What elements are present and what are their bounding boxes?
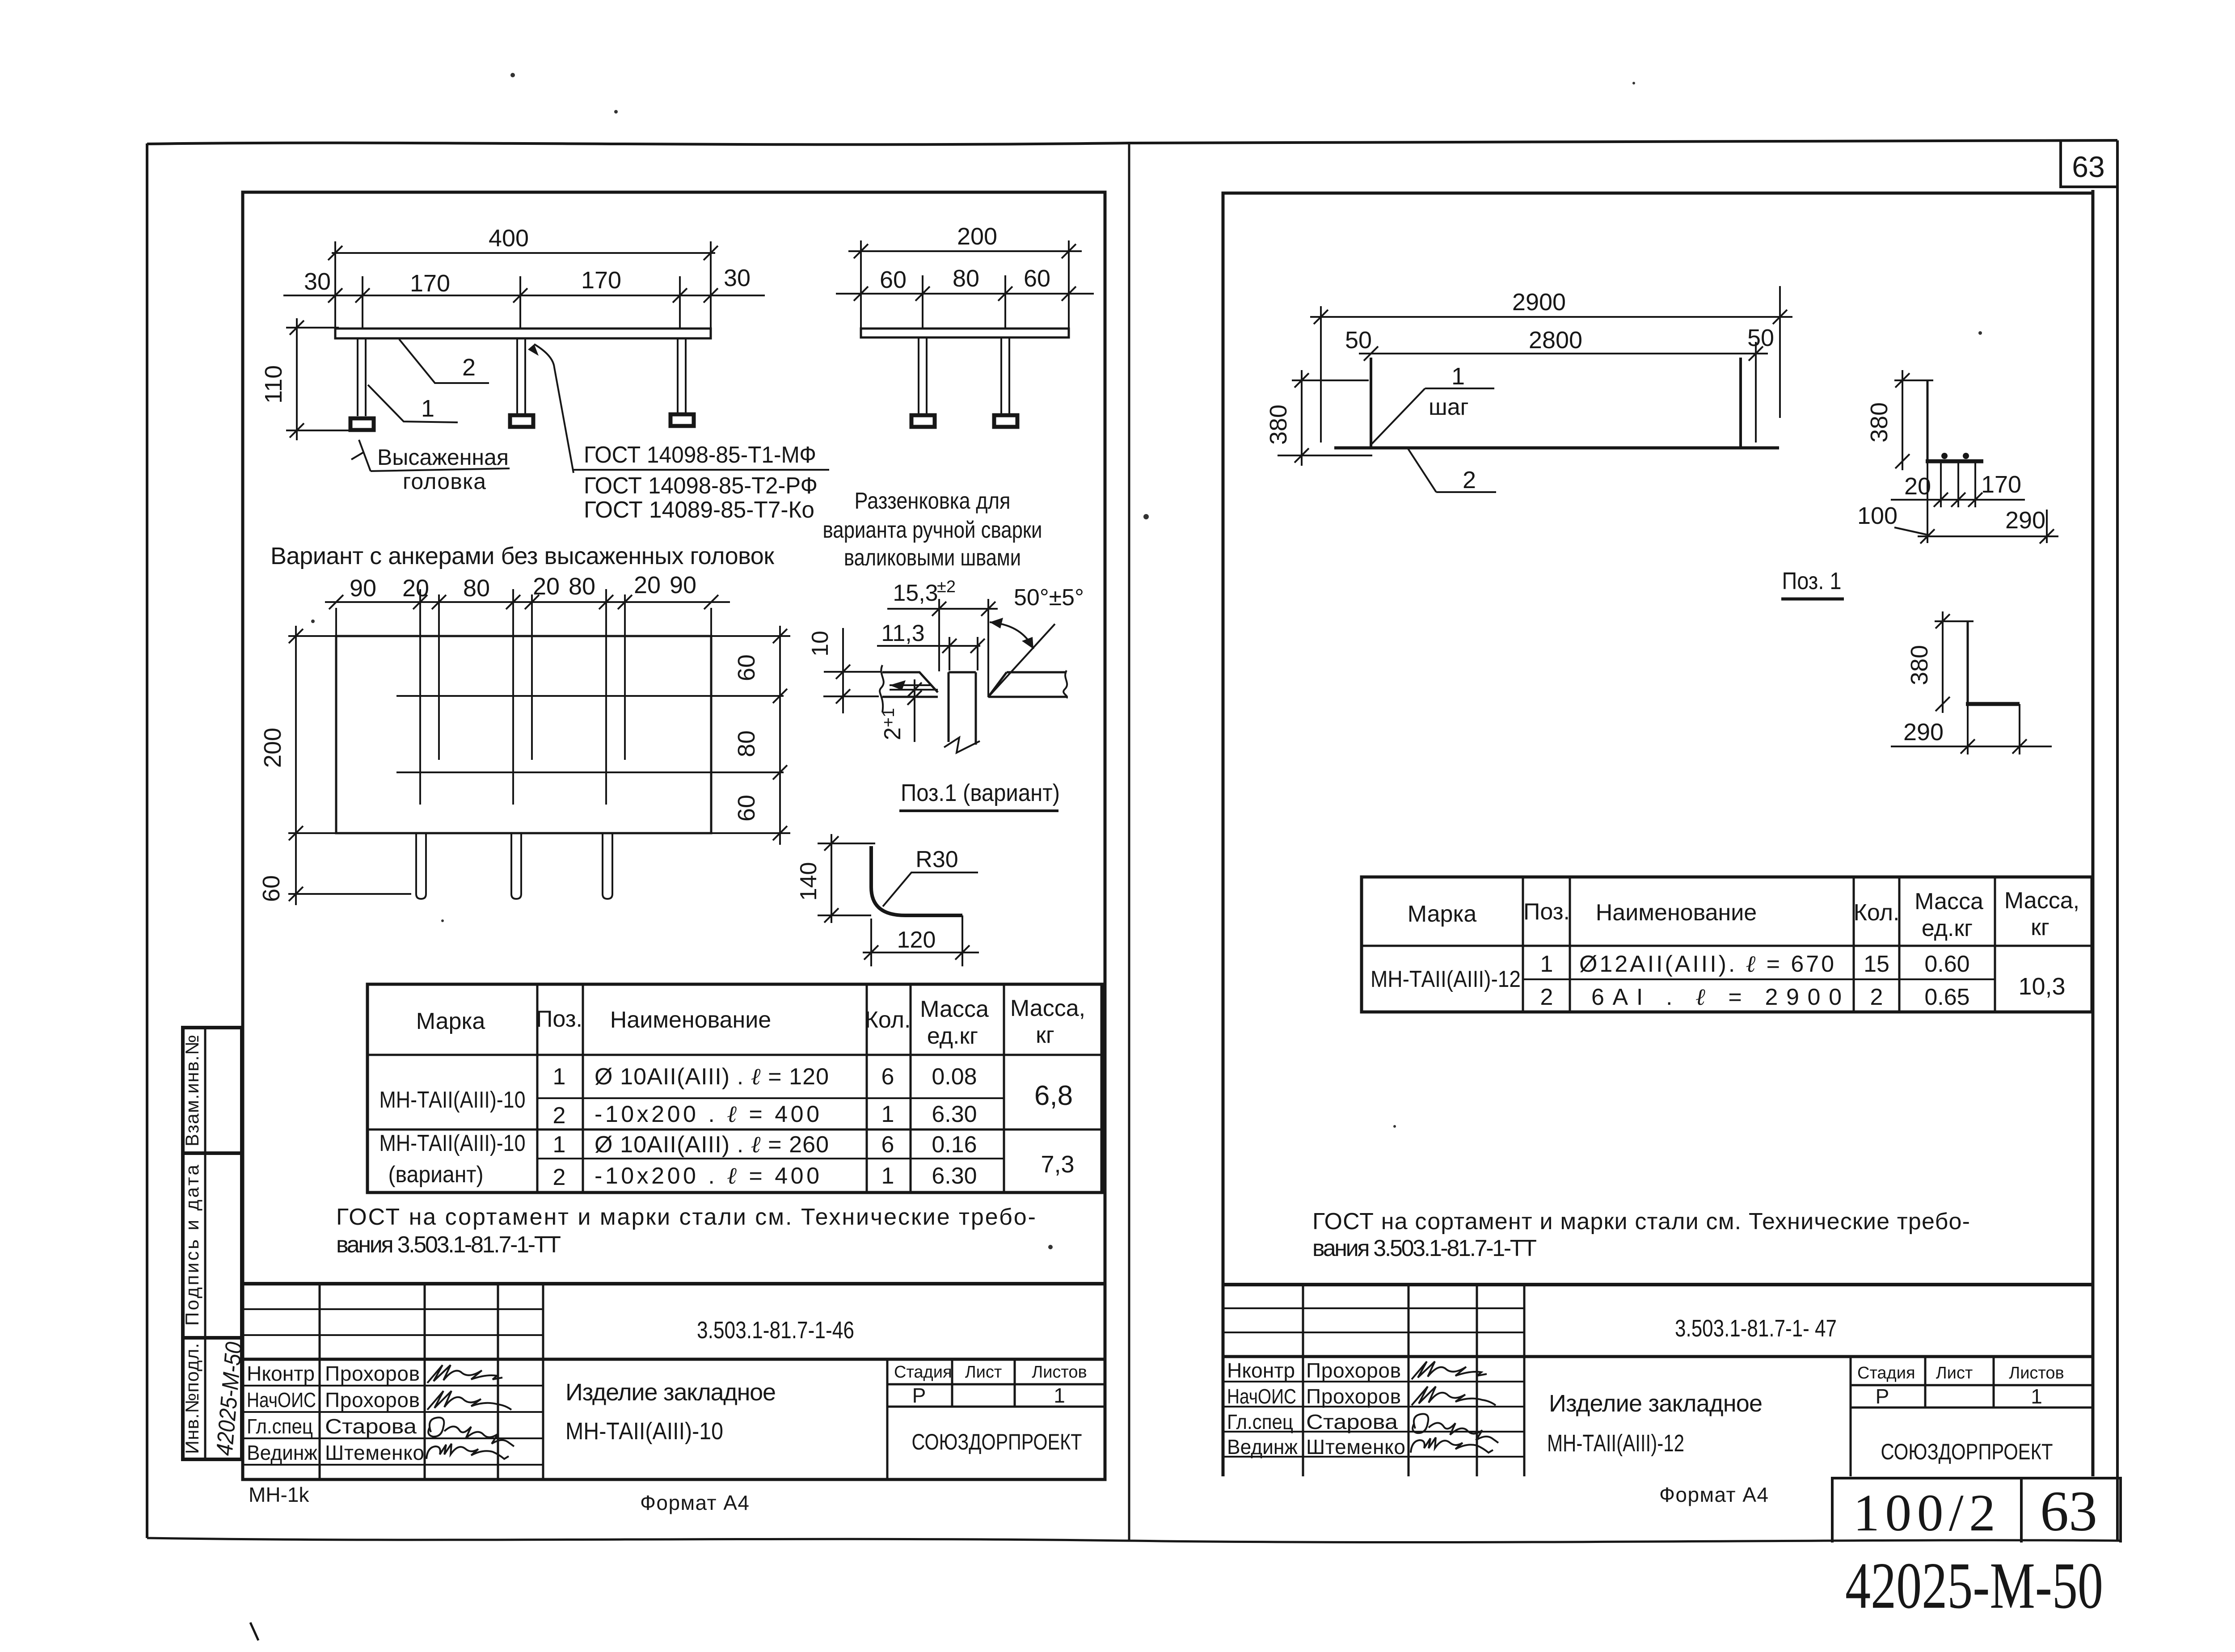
svg-text:Масса,: Масса, [2004,888,2079,914]
svg-text:Масса: Масса [1915,889,1983,914]
svg-text:2: 2 [462,354,476,381]
svg-text:60: 60 [733,654,760,681]
svg-text:60: 60 [1024,265,1050,292]
right title block thin rows top [1223,1308,1524,1332]
svg-text:Поз.: Поз. [1523,899,1570,925]
svg-text:кг: кг [2031,914,2049,940]
svg-text:200: 200 [259,728,286,768]
svg-text:80: 80 [569,573,595,600]
svg-text:1: 1 [421,395,434,422]
leader item 2 [399,339,489,383]
svg-text:3.503.1-81.7-1- 47: 3.503.1-81.7-1- 47 [1675,1315,1837,1342]
svg-text:Инв.№подл.: Инв.№подл. [181,1343,202,1454]
view1 anchor rod 1 (item 1) [358,338,366,416]
page outer border left [146,143,148,1538]
svg-text:Старова: Старова [325,1415,417,1438]
svg-text:Поз.1 (вариант): Поз.1 (вариант) [901,780,1060,806]
svg-text:головка: головка [403,469,486,494]
svg-text:ГОСТ 14089-85-Т7-Ко: ГОСТ 14089-85-Т7-Ко [584,497,814,523]
view1 plate (item 2) [335,329,711,338]
svg-text:Марка: Марка [416,1008,485,1034]
dimension 2800 [1359,342,1768,442]
page outer border bottom [147,1538,2121,1542]
dimension 200 vertical left [288,626,336,843]
mesh long bar (item 2) [1334,447,1779,450]
svg-text:6.30: 6.30 [932,1163,977,1189]
svg-text:Формат А4: Формат А4 [1659,1483,1768,1506]
left margin box Инв.№подл. [183,1338,242,1459]
signature Старова right [1413,1414,1498,1443]
svg-text:20: 20 [402,575,429,602]
svg-text:60: 60 [258,875,285,902]
svg-text:90: 90 [670,572,696,598]
anchor slot column 1 [420,589,439,805]
svg-text:Марка: Марка [1408,901,1477,927]
left margin box Взам.инв.№ [183,1028,242,1153]
dimension 120 [863,915,979,966]
svg-text:290: 290 [1903,719,1944,746]
signature Прохоров 2 right [1412,1386,1496,1405]
svg-text:Масса: Масса [920,996,989,1022]
anchor slot column 2 [513,589,532,805]
svg-text:11,3: 11,3 [881,620,924,646]
svg-text:МН-ТАII(АIII)-10: МН-ТАII(АIII)-10 [380,1087,526,1113]
svg-text:1: 1 [881,1163,894,1189]
svg-text:30: 30 [724,265,751,291]
svg-text:380: 380 [1265,405,1292,445]
svg-text:2800: 2800 [1529,327,1582,354]
svg-text:2: 2 [1870,984,1883,1010]
svg-text:(вариант): (вариант) [388,1162,484,1188]
end view: plate edge thick bar [1926,459,1983,464]
svg-text:Кол.: Кол. [865,1007,911,1033]
svg-text:Штеменко: Штеменко [1306,1435,1405,1458]
weld detail left plate break line [880,665,884,712]
svg-text:Поз. 1: Поз. 1 [1782,568,1842,594]
svg-text:63: 63 [2072,150,2104,183]
svg-text:6,8: 6,8 [1034,1080,1073,1111]
svg-text:120: 120 [897,927,936,953]
right sheet inner frame [1223,193,2093,1476]
svg-text:Листов: Листов [1032,1363,1087,1382]
weld detail anchor rod [949,672,976,745]
svg-text:20: 20 [533,573,560,600]
svg-text:Наименование: Наименование [610,1007,771,1033]
svg-text:140: 140 [796,862,822,901]
svg-text:Прохоров: Прохоров [325,1388,420,1412]
svg-text:0.16: 0.16 [932,1132,977,1158]
view1 upset head 1 [350,418,374,430]
svg-text:Ø 10АII(АIII) . ℓ = 260: Ø 10АII(АIII) . ℓ = 260 [595,1132,829,1158]
left title block outer [243,1282,1105,1285]
anchor slot column 3 [606,589,625,805]
svg-text:МН-ТАII(АIII)-12: МН-ТАII(АIII)-12 [1547,1430,1684,1457]
svg-text:80: 80 [463,575,490,602]
view1 anchor rod 3 [678,338,686,413]
svg-text:СОЮЗДОРПРОЕКТ: СОЮЗДОРПРОЕКТ [1881,1439,2053,1464]
view2 anchor rod 1 [919,337,927,413]
svg-text:Лист: Лист [965,1363,1002,1382]
end view dimension 380 [1894,370,1933,470]
svg-text:Нконтр: Нконтр [1227,1359,1295,1382]
svg-text:R30: R30 [915,847,958,872]
svg-text:Стадия: Стадия [1857,1364,1915,1382]
svg-text:1: 1 [1451,363,1465,390]
weld detail right plate [988,672,1067,697]
dimension 60 80 60 [836,275,1094,328]
view2 upset head 1 [911,415,935,427]
angle arc with arrows [990,622,1033,649]
left table row line r1/r2 partial [537,1097,1004,1099]
svg-text:1: 1 [2031,1385,2042,1408]
svg-text:Кол.: Кол. [1854,900,1900,926]
svg-text:НачОИС: НачОИС [1227,1385,1296,1408]
dimension 110 [286,318,353,440]
side view: horizontal leg thick [1966,702,2020,706]
svg-text:7,3: 7,3 [1041,1151,1074,1178]
svg-text:Вединж: Вединж [247,1441,317,1464]
svg-text:СОЮЗДОРПРОЕКТ: СОЮЗДОРПРОЕКТ [912,1429,1082,1454]
view1 anchor rod 2 [517,338,525,413]
svg-text:шаг: шаг [1429,394,1469,420]
signature Прохоров 2 [427,1391,511,1410]
svg-text:вания 3.503.1-81.7-1-ТТ: вания 3.503.1-81.7-1-ТТ [336,1232,561,1258]
svg-text:20: 20 [634,572,661,598]
svg-text:20: 20 [1904,473,1931,500]
anchor row line 1 [396,695,784,697]
svg-text:Ø12АII(АIII). ℓ = 670: Ø12АII(АIII). ℓ = 670 [1579,951,1834,977]
left title block name rows [243,1386,543,1465]
left sheet inner frame [243,192,1105,1479]
svg-text:МН-ТАII(АIII)-12: МН-ТАII(АIII)-12 [1371,966,1521,992]
signature Старова [428,1417,514,1446]
svg-text:Р: Р [912,1384,926,1407]
svg-text:1: 1 [881,1101,894,1127]
svg-text:Взам.инв.№: Взам.инв.№ [181,1035,202,1146]
svg-text:Вариант с анкерами без высажен: Вариант с анкерами без высаженных голово… [270,543,774,569]
leader item 1 [368,385,458,422]
svg-text:2: 2 [1463,467,1476,493]
left table group separator line [367,1129,1102,1131]
left table row line r3/r4 partial [537,1158,1004,1159]
svg-text:63: 63 [2040,1479,2097,1543]
left table header bottom line [367,1054,1102,1056]
dimension 11,3 [877,637,980,670]
svg-text:50°±5°: 50°±5° [1014,585,1084,611]
left margin box Подпись и дата [183,1153,242,1338]
svg-text:100/2: 100/2 [1853,1483,1995,1542]
signature Штеменко [426,1444,509,1459]
svg-text:6: 6 [881,1064,894,1090]
page outer border right [2116,140,2119,1542]
dimension 20 and 170 [1891,499,2025,501]
sheet number box 63 top right [2061,141,2117,187]
svg-text:Масса,: Масса, [1010,995,1085,1021]
right table row divider partial [1523,978,1995,980]
right plate break line [1063,670,1067,698]
leader underline under GOST line1 [572,469,829,471]
svg-text:0.08: 0.08 [932,1064,977,1090]
svg-text:Высаженная: Высаженная [377,445,509,470]
svg-text:ед.кг: ед.кг [1922,915,1973,941]
svg-text:Вединж: Вединж [1227,1435,1298,1458]
svg-text:1: 1 [553,1064,566,1090]
svg-text:50: 50 [1747,324,1774,351]
svg-text:2900: 2900 [1512,289,1566,316]
svg-text:1: 1 [1054,1384,1065,1407]
svg-text:6: 6 [881,1132,894,1158]
dimension 60 vertical bottom left [288,843,411,905]
svg-text:Штеменко: Штеменко [325,1441,424,1464]
dimension 380 left [1278,370,1372,466]
svg-text:Старова: Старова [1306,1410,1398,1433]
svg-text:варианта ручной сварки: варианта ручной сварки [823,517,1042,543]
left parts table frame [367,984,1102,1193]
side view: bent bar vertical leg [1967,621,1969,704]
svg-text:50: 50 [1345,327,1372,354]
end view bar cross-sections dots [1941,453,1948,459]
anchor row line 2 [396,771,784,773]
svg-text:МН-ТАII(АIII)-10: МН-ТАII(АIII)-10 [565,1418,723,1445]
svg-text:МН-ТАII(АIII)-10: МН-ТАII(АIII)-10 [380,1130,526,1156]
top view plate outline [336,636,711,833]
svg-text:Наименование: Наименование [1596,900,1757,926]
svg-text:ГОСТ 14098-85-Т2-РФ: ГОСТ 14098-85-Т2-РФ [584,473,818,499]
mesh cross bar right (item 1) [1739,358,1742,448]
dimension 2900 [1310,286,1792,442]
dimension 400 [332,241,715,328]
weld detail left plate [882,672,938,697]
svg-text:380: 380 [1866,402,1893,442]
svg-text:Гл.спец: Гл.спец [1227,1410,1293,1433]
svg-text:Подпись и дата: Подпись и дата [181,1164,202,1326]
side view dimension 380 [1935,611,1974,713]
svg-text:15: 15 [1864,951,1889,977]
svg-text:60: 60 [733,795,760,822]
dimension 10 plate thickness [823,628,881,713]
svg-text:2: 2 [553,1103,566,1129]
svg-text:Изделие закладное: Изделие закладное [1549,1390,1763,1417]
svg-text:НачОИС: НачОИС [247,1388,316,1412]
right table header bottom [1362,945,2092,947]
bevel slope line 50deg [990,624,1055,695]
bottom protruding rod 2 [511,833,521,899]
dimension 140 [818,834,875,923]
svg-text:Стадия: Стадия [894,1363,952,1382]
svg-text:100: 100 [1857,502,1898,529]
right table column lines [1523,877,1995,1012]
view2 plate [861,329,1069,337]
view2 upset head 2 [994,415,1017,427]
svg-text:170: 170 [1981,471,2021,498]
left title block thin rows top [243,1309,543,1335]
dimension 90 20 80 20 80 20 90 [325,602,730,636]
leader item 2 [1408,449,1496,492]
svg-text:Поз.: Поз. [536,1006,582,1032]
svg-text:Формат А4: Формат А4 [640,1491,749,1514]
leader item 1 шаг [1371,388,1494,445]
svg-text:ГОСТ на сортамент и марки стал: ГОСТ на сортамент и марки стали см. Техн… [1312,1209,1970,1235]
signature Прохоров 1 right [1412,1361,1487,1379]
svg-text:1: 1 [553,1132,566,1158]
dimension 60 80 60 vertical right [711,626,790,845]
svg-text:вания 3.503.1-81.7-1-ТТ: вания 3.503.1-81.7-1-ТТ [1312,1235,1537,1261]
svg-text:МН-1k: МН-1k [249,1483,309,1506]
dimension 2+1 root face [890,679,938,742]
dimension 15,3+-2 [887,599,998,697]
svg-text:Нконтр: Нконтр [247,1362,315,1385]
view1 upset head 3 [670,414,694,426]
bottom protruding rod 3 [603,833,612,899]
dimension 200 [848,240,1082,328]
svg-text:110: 110 [260,365,287,404]
right title block outer [1223,1283,2093,1286]
svg-text:6.30: 6.30 [932,1101,977,1127]
svg-text:1: 1 [1540,951,1553,977]
svg-text:2: 2 [1540,984,1553,1010]
right title block stage rows [1851,1385,2093,1408]
svg-text:30: 30 [304,268,331,295]
end view extension lines below [1927,461,1975,543]
leader 100 [1894,527,1927,535]
svg-text:170: 170 [410,270,450,297]
R30 radius leader [883,872,978,906]
svg-text:Прохоров: Прохоров [1306,1385,1401,1408]
svg-text:3.503.1-81.7-1-46: 3.503.1-81.7-1-46 [697,1317,854,1344]
right title block name rows [1223,1382,1524,1457]
svg-text:380: 380 [1906,645,1933,685]
svg-text:Прохоров: Прохоров [1306,1359,1401,1382]
svg-text:Ø 10АII(АIII) . ℓ = 120: Ø 10АII(АIII) . ℓ = 120 [595,1064,829,1090]
svg-text:80: 80 [953,265,979,292]
svg-text:90: 90 [350,575,376,602]
svg-text:Изделие закладное: Изделие закладное [565,1379,776,1406]
svg-text:170: 170 [581,267,621,294]
svg-text:0.65: 0.65 [1924,984,1969,1010]
svg-text:290: 290 [2005,507,2045,534]
view1 upset head 2 [510,415,533,427]
svg-text:±2: ±2 [937,577,956,596]
signature Прохоров 1 [427,1365,502,1383]
side view dimension 290 [1891,704,2052,754]
svg-text:42025-М-50: 42025-М-50 [1845,1549,2103,1622]
svg-text:60: 60 [880,266,907,293]
weld direction arrow [890,684,932,686]
left table column lines [537,984,1004,1193]
rod break line [944,737,980,753]
svg-text:Р: Р [1876,1385,1889,1408]
svg-text:Гл.спец: Гл.спец [247,1415,313,1438]
left title block verticals [320,1284,1015,1479]
dimension 30 170 170 30 [283,276,765,328]
svg-text:ГОСТ 14098-85-Т1-МФ: ГОСТ 14098-85-Т1-МФ [584,442,816,468]
signature Штеменко right [1411,1437,1493,1453]
svg-text:Прохоров: Прохоров [325,1362,420,1385]
svg-text:400: 400 [489,225,529,252]
svg-text:15,3: 15,3 [893,580,938,606]
view2 anchor rod 2 [1001,337,1009,413]
svg-text:Раззенковка для: Раззенковка для [855,488,1011,514]
mesh cross bar left (item 1) [1370,358,1372,448]
svg-text:2: 2 [553,1164,566,1190]
scan specks [250,73,1982,1640]
dimension 290 upper [1918,510,2058,543]
left title block stage rows [887,1384,1105,1407]
svg-text:Лист: Лист [1936,1364,1973,1382]
bottom protruding rod 1 [416,833,426,899]
right parts table frame [1362,877,2092,1012]
svg-text:ед.кг: ед.кг [927,1023,978,1049]
end view: bent bar vertical leg [1927,380,1929,461]
svg-text:200: 200 [957,223,997,250]
svg-text:ГОСТ на сортамент и марки стал: ГОСТ на сортамент и марки стали см. Техн… [336,1204,1036,1230]
sheet divider line [1128,143,1130,1541]
svg-text:кг: кг [1036,1022,1054,1048]
svg-text:10,3: 10,3 [2018,973,2065,1000]
bottom right page box 100/2 63 [1832,1478,2121,1542]
svg-text:Листов: Листов [2009,1364,2064,1382]
svg-text:10: 10 [807,631,833,657]
svg-text:0.60: 0.60 [1924,951,1969,977]
page outer border top [147,140,2117,144]
svg-text:валиковыми швами: валиковыми швами [844,545,1021,571]
curved leader to GOST welds [534,344,574,473]
svg-text:80: 80 [733,730,760,757]
right title block verticals [1303,1285,1994,1476]
bent anchor bar with R30 fillet [871,846,962,915]
